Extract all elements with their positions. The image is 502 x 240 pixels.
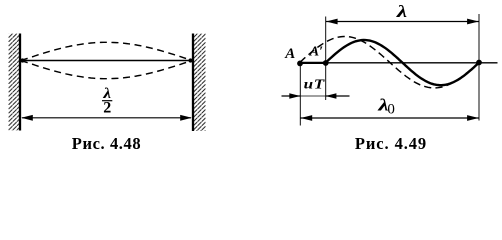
axis line [300,62,498,64]
svg-text:A: A [284,46,295,62]
right wall line [192,34,194,132]
solid wave lambda [326,40,479,85]
lambda arrow right [467,19,479,25]
uT left tail [282,95,301,97]
lambda0 arrow right [467,115,479,121]
solid segment A-A' [300,62,326,64]
guide line at A' [325,17,327,101]
uT thin connector [300,95,325,97]
uT right tail [326,95,350,97]
svg-text:uT: uT [304,77,326,92]
left wall line [19,34,21,131]
dim arrow left [21,115,33,121]
lambda0 arrow left [301,115,313,121]
right wall hatching [194,34,206,132]
point A' [323,60,329,66]
svg-text:λ: λ [396,3,408,21]
lambda/2 dimension line [22,117,191,119]
dim arrow right [180,115,192,121]
guide line right [478,14,480,121]
fraction bar [102,100,112,102]
lower envelope (dashed) [21,61,192,79]
point A [297,61,303,67]
guide line at A [299,63,301,126]
svg-text:2: 2 [103,99,111,116]
svg-text:Рис. 4.49: Рис. 4.49 [355,134,427,153]
string equilibrium line [21,60,192,62]
upper envelope (dashed) [21,42,192,60]
lambda arrow left [326,19,338,25]
uT right arrow (tip at A' guide, points left) [325,93,336,98]
uT left arrow (tip at A guide, points right) [289,93,300,98]
lambda dimension line [326,21,479,23]
svg-text:0: 0 [387,102,395,118]
lambda0 dimension line [300,117,479,119]
dashed wave lambda0 [300,37,479,88]
right attachment dot [188,58,192,62]
svg-text:Рис. 4.48: Рис. 4.48 [72,134,141,153]
svg-text:A′: A′ [309,45,323,60]
left wall hatching [9,34,20,131]
left attachment dot [20,58,24,62]
right end point [476,60,482,66]
